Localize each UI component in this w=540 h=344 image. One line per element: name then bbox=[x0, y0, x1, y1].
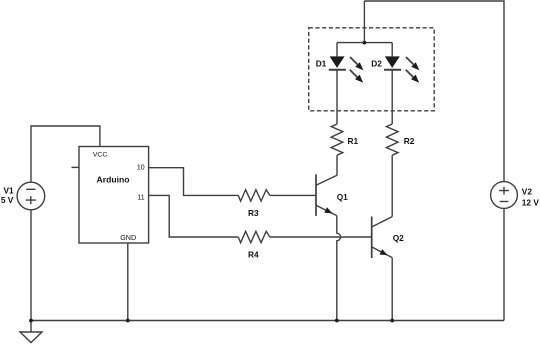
IC U1 Arduino box bbox=[79, 147, 149, 244]
dashed LED enclosure box bbox=[309, 28, 435, 111]
svg-text:R2: R2 bbox=[404, 136, 415, 146]
svg-text:11: 11 bbox=[137, 194, 144, 201]
voltage source V1 bbox=[17, 182, 45, 210]
svg-text:V1: V1 bbox=[4, 186, 15, 196]
junction dot Q1 emitter bbox=[335, 319, 339, 323]
wire D2 cathode to R2 bbox=[391, 70, 393, 124]
svg-text:12 V: 12 V bbox=[522, 198, 540, 208]
wire R3 to Q1 base bbox=[270, 194, 316, 196]
svg-text:10: 10 bbox=[137, 165, 145, 172]
svg-text:GND: GND bbox=[120, 233, 136, 242]
wire LED top bar bbox=[337, 42, 392, 44]
svg-text:Q2: Q2 bbox=[393, 233, 404, 243]
wire R4 to Q2 base (over Q1 emitter) bbox=[270, 236, 372, 238]
wire Q2 emitter to rail bbox=[391, 258, 393, 321]
svg-text:R1: R1 bbox=[348, 136, 359, 146]
junction dot GND wire bbox=[126, 319, 130, 323]
LED D1 bbox=[329, 43, 364, 83]
junction dot Q2 emitter bbox=[390, 319, 394, 323]
LED D2 bbox=[384, 43, 419, 83]
wire top feed into LED bar bbox=[363, 1, 365, 43]
svg-text:VCC: VCC bbox=[93, 151, 107, 158]
wire ground rail bbox=[31, 320, 504, 322]
resistor R3 bbox=[238, 190, 269, 201]
junction dot ground bbox=[29, 319, 33, 323]
junction dot LED bar bbox=[363, 41, 367, 45]
wire pin 10 to R3 bbox=[149, 168, 239, 196]
resistor R2 bbox=[386, 124, 398, 155]
wire Q2 collector to R2 bbox=[391, 155, 393, 216]
svg-text:R3: R3 bbox=[248, 208, 259, 218]
pin stub left bbox=[72, 166, 80, 168]
wire D1 cathode to R1 bbox=[336, 70, 338, 124]
svg-text:Arduino: Arduino bbox=[97, 174, 130, 184]
wire Q1 emitter to rail with hop over R4 wire bbox=[337, 216, 341, 321]
wire Arduino GND to rail bbox=[127, 243, 129, 321]
svg-text:Q1: Q1 bbox=[337, 192, 348, 202]
resistor R4 bbox=[238, 231, 269, 242]
wire V1 top to Arduino VCC bbox=[31, 126, 100, 182]
wire V2 bottom to ground rail bbox=[503, 208, 505, 320]
wire V1 bottom to ground rail bbox=[30, 210, 32, 321]
resistor R1 bbox=[331, 124, 343, 155]
wire top net V2 to LEDs bbox=[364, 1, 504, 182]
svg-text:V2: V2 bbox=[522, 186, 533, 196]
svg-text:D1: D1 bbox=[316, 59, 327, 69]
svg-text:D2: D2 bbox=[371, 59, 382, 69]
wire Q1 collector to R1 bbox=[336, 155, 338, 175]
svg-text:5 V: 5 V bbox=[1, 195, 14, 205]
voltage source V2 bbox=[491, 182, 518, 209]
ground bbox=[20, 321, 42, 343]
wire pin 11 to R4 bbox=[149, 195, 239, 237]
transistor Q2 bbox=[372, 217, 393, 259]
svg-text:R4: R4 bbox=[248, 250, 259, 260]
transistor Q1 bbox=[316, 174, 337, 216]
